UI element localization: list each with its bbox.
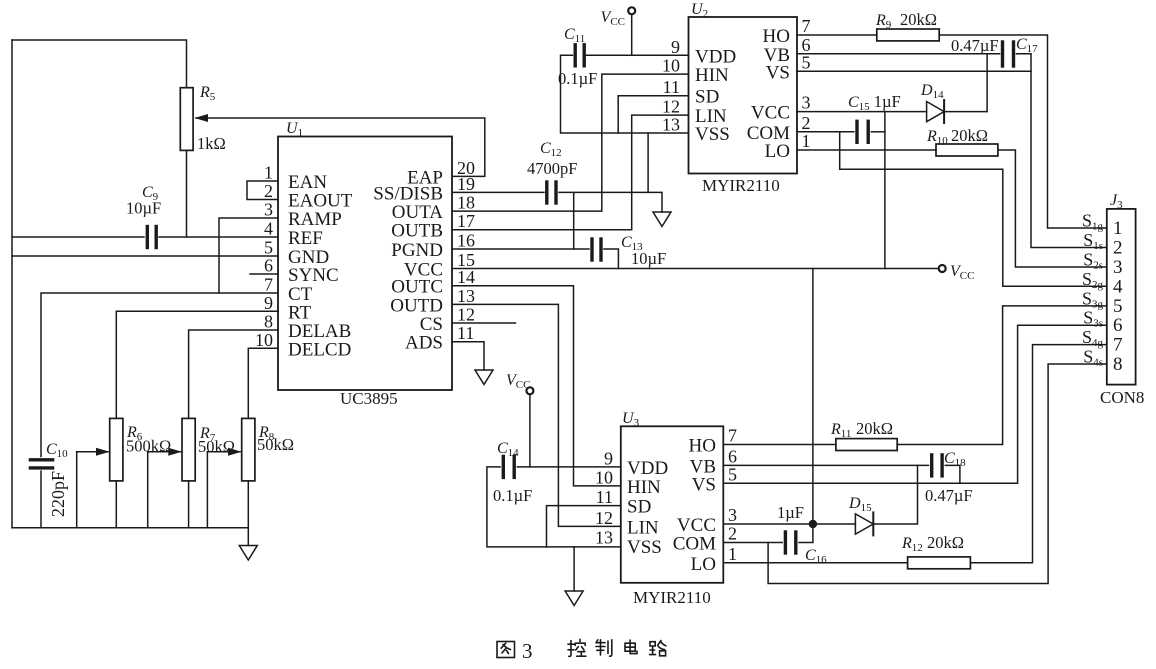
capacitor C13 — [590, 239, 593, 260]
wire: U2 VB pin6 to C17 — [797, 53, 1000, 55]
wire: OUTA pin18 to U2 HIN — [452, 74, 689, 211]
U1 name and pin text — [255, 120, 475, 408]
wire: pin1-pin2 EAN/EAOUT bracket — [247, 181, 278, 200]
ground symbol G1 below bus — [239, 546, 257, 561]
wire: U3 VB pin6 to C18 — [723, 464, 928, 466]
wire: PGND tie to ground line — [573, 192, 575, 249]
resistor R7 — [182, 418, 195, 481]
svg-text:0.1µF: 0.1µF — [558, 69, 597, 88]
wire: DELCD pin10 to R8 top — [248, 348, 278, 418]
wire: U3 SD pin11 tie to VSS — [547, 506, 621, 547]
U3 name and pin text — [595, 410, 737, 607]
wiper arrowhead of R6 — [96, 448, 110, 456]
svg-text:20191817161514131211: 20191817161514131211 — [457, 158, 475, 343]
svg-text:12345678: 12345678 — [1113, 218, 1123, 375]
capacitor C10 — [30, 458, 52, 461]
wire: C10 bottom to bus — [40, 471, 42, 528]
resistor R9 — [877, 29, 939, 41]
glyph 图 — [497, 642, 515, 658]
svg-text:20kΩ: 20kΩ — [900, 10, 937, 29]
wire: feedback loop top from rail to R5 top — [12, 40, 187, 88]
wire: CT pin7 to C10 — [41, 293, 278, 457]
ground symbol G4 — [565, 591, 583, 606]
wire: REF net pin4 through C9 to rail — [12, 236, 144, 238]
svg-text:CON8: CON8 — [1100, 388, 1144, 407]
capacitor C17 — [1001, 42, 1004, 66]
wire: left ground rail from loop top down to bottom bus — [11, 40, 13, 528]
ground symbol G2 — [653, 212, 671, 227]
wire: DELAB pin8 to R7 top — [189, 330, 278, 418]
capacitor C15 — [855, 121, 858, 142]
wire: COM route down to J3 pin4 S2g — [840, 132, 1107, 286]
wire: SYNC pin6 stub — [250, 273, 278, 275]
wire: PGND pin16 to C13 — [452, 248, 589, 250]
wire: RAMP pin3 to CT line — [219, 218, 278, 293]
svg-text:220pF: 220pF — [48, 471, 68, 517]
wire: U3 VS pin5 to J3 pin6 S3s — [723, 325, 1107, 483]
svg-text:20kΩ: 20kΩ — [927, 533, 964, 552]
wire: V1 stub to VDD line — [631, 15, 633, 56]
wire: U3 VSS drop to ground G4 — [573, 547, 575, 591]
wire: R11 to J3 pin5 S3g — [897, 306, 1107, 445]
wire: U3 COM pin2 to C16 — [723, 542, 782, 544]
caption: 图 3 控制电路 drawn as paths — [497, 639, 666, 663]
resistor R6 — [110, 418, 123, 481]
svg-text:1kΩ: 1kΩ — [197, 134, 226, 153]
wire: D14 cathode up to VB — [944, 54, 987, 112]
wire: U2 COM pin2 to C15 — [797, 131, 854, 133]
wire: C13 right to VCC rail — [604, 249, 618, 269]
wire: SS/DISB pin19 through C12 to ground G2 — [452, 191, 544, 193]
wire: R5 bottom to REF line — [186, 150, 188, 237]
capacitor C14 — [502, 456, 505, 477]
wire: R10 to J3 pin3 S2s — [998, 150, 1107, 267]
wire: RT pin9 to R6 top — [116, 311, 278, 418]
op-amp U2 chip body MYIR2110 — [689, 17, 798, 174]
wire: U2 VSS drop to ground line — [647, 133, 649, 192]
svg-text:500kΩ: 500kΩ — [126, 437, 171, 456]
wire: bottom ground bus — [12, 527, 248, 529]
svg-text:MYIR2110: MYIR2110 — [702, 176, 780, 195]
capacitor C16 — [784, 532, 787, 553]
connector J3 body CON8 — [1107, 209, 1136, 385]
glyph 制 — [596, 640, 612, 656]
resistor R8 — [242, 418, 255, 481]
wire: R12 to J3 pin7 S4g — [970, 345, 1106, 563]
svg-text:0.1µF: 0.1µF — [493, 486, 532, 505]
svg-text:0.47µF: 0.47µF — [925, 486, 973, 505]
wire: V3 stub to U3 VDD line — [529, 395, 531, 467]
svg-text:UC3895: UC3895 — [340, 389, 398, 408]
wire: CS pin12 stub — [452, 322, 516, 324]
wire: C18 right to VS line — [945, 465, 960, 483]
wire: OUTC pin14 to U3 HIN — [452, 286, 621, 486]
capacitor C12 — [545, 182, 548, 203]
power Vcc symbol V1 — [628, 7, 635, 14]
wire: U2 VS pin5 to J3 pin2 S1s — [797, 71, 1107, 247]
svg-text:10µF: 10µF — [126, 199, 161, 218]
wire: C17 right to VS line — [1017, 54, 1032, 72]
glyph 控 — [568, 639, 586, 656]
component value labels — [46, 9, 1038, 566]
power Vcc symbol V3 — [526, 387, 533, 394]
wire: C14 left loop to U3 VSS line — [487, 467, 621, 547]
resistor R10 — [936, 144, 998, 156]
wire: U2 LO pin1 to R10 — [797, 149, 936, 151]
capacitor C9 — [146, 227, 149, 248]
wire: U2 SD pin11 tie to VSS — [618, 96, 688, 133]
diode D15 — [855, 514, 873, 534]
wire: U3 VCC pin3 line to D15 — [723, 523, 855, 525]
wire: ADS pin11 to ground G3 — [452, 342, 484, 370]
svg-text:0.47µF: 0.47µF — [951, 36, 999, 55]
svg-text:50kΩ: 50kΩ — [257, 435, 294, 454]
wire: R6 wiper to bus — [77, 451, 108, 453]
wire: U2 VCC pin3 line to D14 — [797, 111, 927, 113]
resistor R12 — [908, 557, 971, 569]
wire: D15 cathode up to VB — [873, 465, 917, 524]
wire: VCC vertical from U2 pin3 down to rail — [884, 112, 886, 269]
glyph 电 — [625, 640, 637, 654]
wiper arrowhead of R8 — [228, 448, 242, 456]
wire: R8 wiper to bus — [207, 451, 240, 453]
svg-text:4700pF: 4700pF — [527, 159, 577, 178]
svg-text:20kΩ: 20kΩ — [951, 126, 988, 145]
op-amp U1 chip body UC3895 — [278, 137, 452, 391]
svg-text:C15 1µF: C15 1µF — [848, 92, 901, 113]
svg-text:20kΩ: 20kΩ — [856, 419, 893, 438]
svg-text:50kΩ: 50kΩ — [198, 437, 235, 456]
wire: R9 to J3 pin1 S1g — [939, 35, 1107, 228]
wire: OUTD pin13 to U3 LIN — [452, 304, 621, 526]
wire: U3 LO pin1 to R12 — [723, 562, 907, 564]
wire: C15 right plate to VCC vertical — [871, 131, 885, 133]
wire: VCC rail drop to U3 VCC junction — [812, 269, 814, 525]
wire: C11 left loop to VSS line — [561, 55, 689, 133]
wire: C16 right plate up to VCC junction — [799, 524, 813, 543]
glyph 路 — [650, 641, 666, 656]
wire: OUTB pin17 to U2 LIN — [452, 115, 689, 230]
diode D14 — [927, 102, 945, 122]
wire: R7 bottom to bus — [188, 481, 190, 528]
wire: VCC rail pin15 to Vcc symbol V2 — [452, 268, 939, 270]
wire: GND net pin5 to rail — [12, 255, 278, 257]
resistor R5 — [180, 88, 193, 151]
svg-text:1µF: 1µF — [777, 503, 804, 522]
U2 name and pin text — [662, 1, 811, 195]
resistor R11 — [836, 439, 897, 451]
wire: R8 bottom to bus and ground stub — [247, 481, 249, 546]
op-amp U3 chip body MYIR2110 — [621, 426, 724, 583]
power Vcc symbol V2 on rail — [939, 265, 946, 272]
wire: U3 HO pin7 to R11 — [723, 444, 836, 446]
wiper arrowhead of R7 — [168, 448, 182, 456]
wire: R6 bottom to bus — [115, 481, 117, 528]
svg-text:10µF: 10µF — [631, 249, 666, 268]
node junction dot at U3 VCC — [809, 520, 817, 528]
wire: R7 wiper to bus — [148, 451, 181, 453]
wiper arrowhead of R5 — [195, 114, 209, 122]
wire: COM route down to J3 pin8 S4s — [768, 364, 1107, 584]
wire: U2 VDD pin9 line to C11 — [587, 54, 689, 56]
capacitor C18 — [930, 455, 933, 476]
svg-text:MYIR2110: MYIR2110 — [633, 588, 711, 607]
capacitor C11 — [574, 45, 577, 66]
connector J3 labels — [1082, 192, 1144, 407]
wire: U3 VDD pin9 line to C14 — [517, 466, 621, 468]
wire: R5 wiper arrow line to pin20 EAP — [196, 118, 485, 176]
svg-text:3: 3 — [522, 639, 533, 663]
wire: U2 HO pin7 to R9 — [797, 34, 877, 36]
ground symbol G3 — [475, 370, 493, 385]
